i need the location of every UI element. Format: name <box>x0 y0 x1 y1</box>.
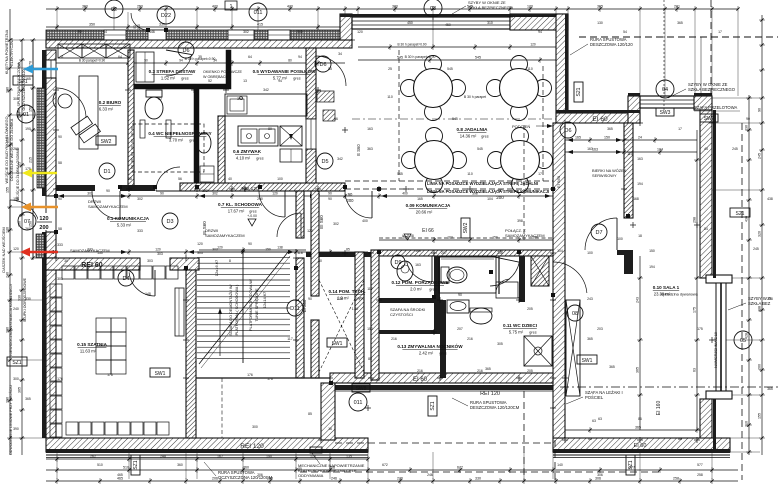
svg-text:110: 110 <box>627 152 633 156</box>
svg-text:365: 365 <box>636 367 640 373</box>
svg-text:ŚCIANA DO DEMONTAŻU W/: ŚCIANA DO DEMONTAŻU W/ <box>228 283 233 335</box>
svg-text:258: 258 <box>673 477 679 481</box>
door D6 strefa dostaw <box>166 50 192 76</box>
svg-text:155: 155 <box>6 187 10 193</box>
svg-text:110: 110 <box>467 172 473 176</box>
svg-text:85: 85 <box>368 357 372 361</box>
outer wall left section bottom <box>46 438 368 452</box>
dim line rooms top <box>56 59 345 67</box>
svg-text:1.50: 1.50 <box>337 297 344 301</box>
svg-text:302: 302 <box>202 189 208 193</box>
svg-text:398: 398 <box>517 219 523 223</box>
svg-text:13: 13 <box>243 79 247 83</box>
dashed line notch v <box>523 391 525 480</box>
POM TECH north wall <box>306 252 372 257</box>
outer wall corner right-top <box>628 96 640 123</box>
note talerze <box>203 70 243 79</box>
svg-text:90: 90 <box>58 197 62 201</box>
svg-text:305: 305 <box>497 342 503 346</box>
svg-text:EI S60: EI S60 <box>556 175 561 188</box>
dim line SALA1 vertical <box>693 130 701 430</box>
svg-text:D22: D22 <box>161 13 171 19</box>
svg-text:175: 175 <box>25 167 31 171</box>
marker D4 bottom left <box>118 270 134 286</box>
outer wall dining west corner <box>340 14 352 40</box>
dashed dining boundary W <box>398 50 400 181</box>
svg-text:350: 350 <box>89 23 95 27</box>
svg-text:207: 207 <box>457 327 463 331</box>
svg-text:216: 216 <box>477 369 483 373</box>
washbasin WC children <box>470 308 492 324</box>
dim line corridor 2 <box>379 236 553 244</box>
svg-text:EI S60: EI S60 <box>319 215 324 229</box>
svg-text:h=-0.08: h=-0.08 <box>402 234 414 238</box>
dashed roofline right <box>711 0 742 480</box>
dim line corridor long <box>56 192 553 200</box>
svg-text:PLATFORMA SCHODOWA W/: PLATFORMA SCHODOWA W/ <box>249 278 253 331</box>
outer wall right section bottom <box>553 438 730 452</box>
svg-text:400: 400 <box>402 192 408 196</box>
svg-text:30: 30 <box>318 259 322 263</box>
washbasin WC-N <box>197 133 211 153</box>
label EI160 right <box>656 401 662 416</box>
svg-text:94: 94 <box>278 79 282 83</box>
dimension line top inner <box>46 32 352 40</box>
svg-text:REI 120: REI 120 <box>240 443 264 450</box>
kitchen double sink <box>238 126 278 146</box>
svg-text:REI 120: REI 120 <box>480 391 500 397</box>
svg-text:011: 011 <box>254 10 263 16</box>
svg-text:SW2: SW2 <box>101 139 112 145</box>
window gap top 2 <box>228 30 254 40</box>
outer wall left lower <box>46 258 56 438</box>
svg-text:210: 210 <box>745 421 749 427</box>
svg-text:0.2 BIURO: 0.2 BIURO <box>99 100 122 105</box>
svg-text:35: 35 <box>198 55 202 59</box>
vertical text left top <box>5 29 14 74</box>
window SW3 right top <box>640 96 696 108</box>
bathroom inner wall v2 <box>440 300 446 378</box>
svg-text:216: 216 <box>467 337 473 341</box>
svg-text:D6: D6 <box>182 48 189 54</box>
svg-text:90: 90 <box>58 135 62 139</box>
room label 0.5 WYDAWANIE <box>253 67 316 81</box>
bathroom inner wall v3 <box>519 256 525 302</box>
svg-text:110: 110 <box>527 67 533 71</box>
interior wall kitchen/dining <box>306 48 316 189</box>
grab rails WC-N <box>140 120 171 138</box>
stairs top dim line <box>199 246 306 254</box>
extension lines top <box>57 12 738 96</box>
SZATNIA wall lockers <box>50 266 178 437</box>
SZATNIA center bench <box>96 318 126 374</box>
dashed szatnia divider <box>221 378 223 438</box>
svg-text:30: 30 <box>64 259 68 263</box>
note 90/200 b <box>347 192 355 203</box>
insulation band right wall <box>713 110 716 452</box>
svg-text:175: 175 <box>693 307 697 313</box>
svg-text:430: 430 <box>287 5 293 9</box>
left wall entrance band upper <box>33 40 45 258</box>
room label 0.6 ZMYWAK <box>233 149 264 161</box>
cabinet WC children <box>496 282 518 298</box>
svg-text:163: 163 <box>367 127 373 131</box>
door komunikacja east <box>345 191 372 218</box>
svg-text:2.0 m²: 2.0 m² <box>410 287 422 292</box>
svg-text:011: 011 <box>354 400 363 406</box>
svg-text:gres: gres <box>256 157 263 161</box>
svg-text:80: 80 <box>288 59 292 63</box>
svg-text:EI 66: EI 66 <box>422 228 434 234</box>
svg-text:12x16.67: 12x16.67 <box>214 259 219 276</box>
svg-text:0.5 WYDAWANIE POSIŁKÓW: 0.5 WYDAWANIE POSIŁKÓW <box>253 67 316 74</box>
level triangle komunikacja <box>404 234 411 240</box>
outer wall right top corner E <box>694 96 712 110</box>
room label 0.3 STREFA DOSTAW <box>149 69 196 81</box>
vertical text left low <box>1 227 6 272</box>
svg-text:163: 163 <box>637 157 643 161</box>
svg-text:150: 150 <box>97 251 103 255</box>
svg-text:120: 120 <box>357 30 363 34</box>
svg-text:258: 258 <box>697 473 703 477</box>
svg-text:420: 420 <box>212 5 218 9</box>
svg-text:165: 165 <box>415 249 421 253</box>
svg-text:465: 465 <box>117 473 123 477</box>
orange arrow <box>21 203 58 212</box>
window sill right upper <box>706 275 732 283</box>
svg-text:58: 58 <box>58 227 62 231</box>
toilet WC-N <box>145 90 163 119</box>
svg-text:281: 281 <box>674 5 680 9</box>
svg-text:365: 365 <box>25 397 31 401</box>
box SZ1 left top <box>13 76 33 85</box>
svg-text:94: 94 <box>298 55 302 59</box>
svg-text:58: 58 <box>58 161 62 165</box>
marker 05 right <box>734 331 752 349</box>
svg-text:0.15 SZATNIA: 0.15 SZATNIA <box>77 342 107 347</box>
svg-text:ODWODNIENIE LINIOWE PRZY WEJŚC: ODWODNIENIE LINIOWE PRZY WEJŚCIU <box>8 385 13 455</box>
window sill right lower <box>706 391 732 399</box>
svg-text:DASZEK NAD WEJŚCIEM: DASZEK NAD WEJŚCIEM <box>1 227 6 272</box>
marker 011 top <box>249 3 267 21</box>
svg-text:303: 303 <box>157 252 163 256</box>
svg-text:365: 365 <box>767 387 773 391</box>
vertical text left extra2 <box>15 148 20 202</box>
room label 0.12 POM PORZ <box>392 280 449 292</box>
svg-text:168: 168 <box>633 197 639 201</box>
svg-text:gres: gres <box>439 352 446 356</box>
marker 02 top <box>105 0 123 18</box>
dimension line left inner <box>29 38 37 260</box>
svg-text:56: 56 <box>334 117 338 121</box>
interior wall STREFA east <box>226 50 231 89</box>
interior wall WC east <box>194 89 199 189</box>
svg-text:360: 360 <box>82 5 88 9</box>
toilet POM PORZ <box>397 261 413 281</box>
svg-text:SW1: SW1 <box>582 358 593 364</box>
svg-text:236: 236 <box>397 477 403 481</box>
dining table T1 with chairs <box>401 56 466 121</box>
svg-text:303: 303 <box>197 251 203 255</box>
svg-text:D5: D5 <box>321 159 328 165</box>
box SW1 pomtech <box>327 338 347 347</box>
svg-text:510: 510 <box>123 466 129 470</box>
svg-text:90: 90 <box>348 192 353 197</box>
door stairs <box>277 213 301 237</box>
staircase flights <box>197 250 290 368</box>
svg-text:OCZYSZCZONA 120/120CM: OCZYSZCZONA 120/120CM <box>218 475 273 480</box>
svg-text:545: 545 <box>397 172 403 176</box>
window gap top 1 <box>104 30 126 40</box>
svg-text:63: 63 <box>592 419 596 423</box>
svg-text:D6: D6 <box>564 128 571 134</box>
door opening left 120-200 <box>46 196 56 232</box>
extension lines right <box>712 98 760 452</box>
door D7 right section <box>585 218 617 250</box>
room label 0.11 WC DZIECI <box>503 323 537 335</box>
svg-text:94: 94 <box>179 59 183 63</box>
svg-text:17: 17 <box>678 127 682 131</box>
svg-text:302: 302 <box>137 197 143 201</box>
svg-text:DESZCZOWA 120/120CM: DESZCZOWA 120/120CM <box>470 405 520 410</box>
interior wall right section lower <box>617 250 633 274</box>
dim line corridor right 1 <box>565 136 697 144</box>
svg-text:163: 163 <box>447 236 453 240</box>
svg-text:LINIA NA POSADZCE WYDZIELAJĄCA: LINIA NA POSADZCE WYDZIELAJĄCA STREFĘ KO… <box>427 189 549 194</box>
bathroom inner wall v1 <box>434 256 440 332</box>
marker D5 kitchen <box>317 153 333 169</box>
svg-text:200: 200 <box>496 195 504 200</box>
svg-text:SAMOZAMYKACZEM: SAMOZAMYKACZEM <box>505 233 545 238</box>
svg-text:117: 117 <box>367 287 373 291</box>
svg-text:365: 365 <box>18 387 22 393</box>
note 12x1667 stairs <box>214 259 267 308</box>
svg-text:303: 303 <box>57 277 63 281</box>
outer wall right section west <box>553 123 565 438</box>
washroom outline <box>439 257 496 293</box>
marker 04 right top <box>656 80 674 98</box>
svg-text:150: 150 <box>492 236 498 240</box>
svg-text:18: 18 <box>638 234 642 238</box>
extension line 03 <box>432 17 434 47</box>
interior wall POM TECH west <box>311 191 319 378</box>
svg-text:246: 246 <box>331 477 337 481</box>
strefa shelf <box>136 52 154 82</box>
dashed line notch v2 <box>554 440 556 484</box>
dashed axis dining <box>352 118 556 120</box>
note linia jadalni <box>427 181 538 186</box>
note 90/200 <box>496 188 504 200</box>
svg-text:150: 150 <box>604 136 610 140</box>
svg-text:250: 250 <box>137 5 143 9</box>
shaft hatched <box>531 256 549 286</box>
room label 0.10 SALA1 <box>653 285 699 297</box>
svg-text:RURA SPUSTOWA DESZCZOWA: RURA SPUSTOWA DESZCZOWA <box>17 62 21 118</box>
window gap top 3 <box>268 30 290 40</box>
kitchen counter with sink <box>225 88 307 116</box>
bathroom inner wall h2 <box>379 330 440 334</box>
svg-text:B 30 h parapet=0.90: B 30 h parapet=0.90 <box>405 55 436 59</box>
svg-text:S21: S21 <box>736 211 745 217</box>
svg-text:216: 216 <box>391 337 397 341</box>
svg-text:363: 363 <box>367 147 373 151</box>
room label 0.14 POM TECH <box>328 289 365 301</box>
note samozamykaczem 2 <box>70 248 110 253</box>
svg-text:17: 17 <box>538 172 542 176</box>
svg-text:450: 450 <box>445 23 451 27</box>
svg-text:08: 08 <box>572 311 578 317</box>
insulation band bottom-right <box>553 443 730 458</box>
svg-text:545: 545 <box>447 67 453 71</box>
svg-text:65: 65 <box>588 437 592 441</box>
svg-text:150: 150 <box>265 248 271 252</box>
svg-text:243: 243 <box>587 297 593 301</box>
box SW1 sala1 <box>577 355 597 364</box>
room label 0.13 ZMYWALNIA <box>397 342 463 356</box>
dashed roofline top right <box>579 36 778 38</box>
vertical text left extra3 <box>9 284 13 355</box>
box SW8 mid <box>352 384 370 392</box>
svg-text:80: 80 <box>268 127 272 131</box>
svg-text:216: 216 <box>417 369 423 373</box>
svg-text:200: 200 <box>347 198 355 203</box>
svg-text:ODDYMIANIA: ODDYMIANIA <box>298 473 324 478</box>
svg-text:0.8 JADALNIA: 0.8 JADALNIA <box>457 127 489 132</box>
note rura bottom middle <box>452 398 520 410</box>
door corridor kitchen <box>259 191 285 217</box>
door D1 corridor-biuro <box>92 191 120 219</box>
svg-text:SW1: SW1 <box>332 341 343 347</box>
svg-text:118: 118 <box>297 251 303 255</box>
svg-text:246: 246 <box>427 473 433 477</box>
note samozamykacz right <box>505 228 545 238</box>
svg-text:302: 302 <box>333 222 339 226</box>
interior wall POM TECH east <box>355 252 364 378</box>
svg-text:117: 117 <box>287 337 293 341</box>
outer wall left section top masonry <box>46 40 352 48</box>
dimension line right middle <box>745 95 753 455</box>
svg-text:KURTYNA POWIETRZNA: KURTYNA POWIETRZNA <box>5 29 9 74</box>
dimension line left outer <box>6 9 14 455</box>
room label 0.15 SZATNIA <box>77 342 107 354</box>
note bierki <box>592 168 627 178</box>
marker 07 left <box>18 212 36 230</box>
room label 0.1 KOMUNIKACJA <box>107 216 150 228</box>
svg-text:90: 90 <box>328 192 332 196</box>
svg-text:90: 90 <box>758 108 762 112</box>
wardrobe SALA1 <box>566 300 580 396</box>
svg-text:200: 200 <box>39 225 48 231</box>
svg-text:306: 306 <box>597 473 603 477</box>
svg-text:34: 34 <box>338 52 342 56</box>
room label 0.2 BIURO <box>99 100 122 112</box>
dishwasher box <box>280 126 302 146</box>
svg-text:25: 25 <box>388 67 392 71</box>
svg-text:SW3: SW3 <box>660 110 671 116</box>
door arc D22 outside <box>131 13 148 30</box>
svg-text:6.33 m²: 6.33 m² <box>99 107 114 112</box>
svg-text:D3: D3 <box>166 219 173 225</box>
extension lines left <box>13 40 46 438</box>
note szyby right top <box>668 82 736 98</box>
dashed dining boundary E <box>542 66 544 181</box>
note 90/200 top <box>133 24 141 30</box>
wall WC-zmywak <box>218 116 225 185</box>
svg-text:146: 146 <box>149 30 155 34</box>
svg-text:672: 672 <box>382 463 388 467</box>
svg-text:104: 104 <box>557 249 563 253</box>
svg-text:245: 245 <box>758 153 762 159</box>
office chair BIURO <box>53 92 72 108</box>
svg-text:100: 100 <box>617 237 623 241</box>
svg-text:240: 240 <box>13 307 19 311</box>
svg-text:165: 165 <box>575 136 581 140</box>
dashed line corridor right <box>523 125 525 240</box>
svg-text:45: 45 <box>704 147 708 151</box>
sink ZMYWALNIA <box>447 300 469 313</box>
svg-text:176: 176 <box>247 373 253 377</box>
svg-text:206: 206 <box>257 473 263 477</box>
svg-text:330: 330 <box>25 297 31 301</box>
svg-text:342: 342 <box>263 88 269 92</box>
svg-text:0.11 WC DZIECI: 0.11 WC DZIECI <box>503 323 537 328</box>
svg-text:gres: gres <box>249 210 256 214</box>
marker D3 corridor <box>162 213 178 229</box>
door WC-N <box>156 167 180 191</box>
svg-text:155: 155 <box>13 197 19 201</box>
vertical EIS60 sala west <box>556 175 561 188</box>
svg-text:EI 60: EI 60 <box>634 443 647 449</box>
svg-text:672: 672 <box>457 466 463 470</box>
svg-text:EI 160: EI 160 <box>656 401 662 416</box>
svg-text:LINIA NA POSADZCE WYDZIELAJĄCA: LINIA NA POSADZCE WYDZIELAJĄCA STREFĘ JA… <box>427 181 538 186</box>
dining table T3 with chairs <box>402 128 467 193</box>
svg-text:298: 298 <box>693 217 697 223</box>
svg-text:11.63 m²: 11.63 m² <box>80 349 97 354</box>
box SW1 szatnia <box>150 368 170 377</box>
svg-text:20.66 m²: 20.66 m² <box>416 210 433 215</box>
svg-text:85: 85 <box>346 248 350 252</box>
vertical EIS60 stairs <box>202 215 324 235</box>
vertical text left mid <box>4 116 14 183</box>
svg-text:SW8: SW8 <box>356 386 367 392</box>
window right (SALA 1) <box>716 283 726 391</box>
label EI60 right top <box>592 116 608 123</box>
note 120/200 <box>37 213 52 231</box>
svg-text:150: 150 <box>649 249 655 253</box>
label REI 60 on wall <box>81 262 103 269</box>
svg-text:gres: gres <box>189 139 196 143</box>
box S21 right side <box>730 208 750 217</box>
svg-text:90: 90 <box>160 192 164 196</box>
svg-text:01: 01 <box>23 112 29 118</box>
dining table T4 with chairs <box>488 128 553 193</box>
room label 0.4 WC <box>148 131 211 143</box>
svg-text:510: 510 <box>97 463 103 467</box>
marker D6 c <box>560 122 576 138</box>
svg-text:05: 05 <box>740 338 746 344</box>
marker D6 b <box>315 56 331 72</box>
svg-text:365: 365 <box>609 365 615 369</box>
dashed line middle notch h1 <box>335 442 553 444</box>
dim line below dining window 1 <box>358 43 556 51</box>
outer wall left section top insulation <box>46 30 352 40</box>
svg-text:gres: gres <box>529 331 536 335</box>
note podcien <box>512 124 553 129</box>
corridor north wall <box>56 183 345 192</box>
note rura bottom left <box>204 462 273 480</box>
svg-text:WEJŚCIE DO ŻŁOBKA OSOBNE: WEJŚCIE DO ŻŁOBKA OSOBNE <box>15 148 20 202</box>
